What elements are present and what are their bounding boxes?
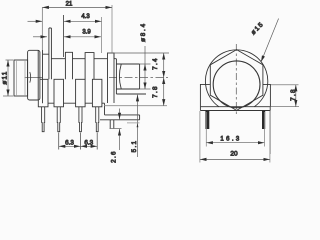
svg-text:ø11: ø11 bbox=[1, 71, 8, 85]
right tab front bbox=[263, 84, 271, 106]
pin 1 bbox=[42, 107, 45, 132]
dim 6.3 first bbox=[59, 145, 81, 147]
washer circle bbox=[213, 61, 260, 108]
dim 20 bbox=[200, 158, 270, 160]
dim 21 bbox=[42, 6, 112, 8]
cylinder end arc bbox=[119, 64, 121, 88]
svg-text:ø8.4: ø8.4 bbox=[140, 22, 147, 42]
threaded bushing (side view) bbox=[14, 60, 28, 96]
dim 7.4 bbox=[163, 53, 165, 78]
contact column 2 tab bbox=[65, 52, 72, 79]
centerline side view bbox=[25, 76, 43, 78]
pin 3 bbox=[79, 107, 82, 132]
dim 6.3 second bbox=[80, 145, 97, 147]
pin 2 bbox=[57, 107, 60, 132]
svg-text:5.1: 5.1 bbox=[131, 140, 138, 153]
dim 5.1 bbox=[137, 95, 139, 157]
lug block 2 bbox=[54, 79, 64, 107]
hex nut (side view) bbox=[28, 50, 40, 100]
dim 16.3 ext lines bbox=[205, 112, 207, 147]
svg-text:16.3: 16.3 bbox=[220, 136, 241, 142]
svg-text:7.8: 7.8 bbox=[152, 85, 159, 98]
svg-text:6.3: 6.3 bbox=[65, 139, 74, 146]
dim 4.3 bbox=[28, 20, 43, 22]
dim 7.8 front bbox=[295, 85, 297, 107]
dim 7.8 side bbox=[163, 78, 165, 106]
svg-text:20: 20 bbox=[230, 151, 238, 158]
body circle front bbox=[205, 50, 267, 107]
contact column 4 tab bbox=[108, 53, 115, 103]
sleeve pin bbox=[110, 120, 114, 129]
line D bbox=[110, 128, 122, 130]
sleeve strip bbox=[100, 103, 140, 120]
dim 7.8 front ext lines bbox=[270, 84, 298, 86]
body outline bbox=[43, 50, 108, 103]
svg-text:2.6: 2.6 bbox=[110, 150, 117, 163]
dim 2.6 bbox=[119, 109, 121, 120]
svg-text:3.9: 3.9 bbox=[82, 30, 91, 36]
dim 7.4 ext line bbox=[108, 52, 170, 54]
lug block 3 bbox=[76, 79, 86, 107]
front view centerline bbox=[235, 44, 237, 116]
dim 20 ext lines bbox=[199, 111, 201, 163]
front pin mid bbox=[262, 111, 265, 130]
svg-text:21: 21 bbox=[66, 2, 73, 8]
dim dia8.4 bbox=[144, 46, 146, 64]
lug block 1 bbox=[38, 79, 48, 107]
dim 7.8 side ext line bbox=[104, 105, 167, 107]
svg-text:6.3: 6.3 bbox=[84, 139, 93, 146]
dim 16.3 bbox=[206, 142, 264, 144]
contact column 3 tab bbox=[85, 53, 94, 80]
svg-text:7.4: 7.4 bbox=[152, 57, 159, 70]
dim dia11 bbox=[6, 59, 14, 61]
pin 4 bbox=[96, 107, 99, 132]
rear cylinder bbox=[116, 64, 139, 89]
base plate front bbox=[200, 107, 270, 111]
lug block 4 bbox=[92, 79, 102, 107]
svg-text:7.8: 7.8 bbox=[290, 88, 297, 101]
dia15 leader bbox=[261, 19, 279, 63]
contact column 1: tall tab bbox=[49, 28, 52, 79]
svg-text:4.3: 4.3 bbox=[81, 14, 90, 20]
dim dia8.4 ext lines bbox=[140, 63, 151, 65]
thread lines bbox=[16, 60, 18, 96]
body rear edge bbox=[114, 53, 146, 94]
hex nut front bbox=[210, 50, 263, 111]
dim 4.3 ext lines bbox=[63, 15, 65, 57]
dim 21 extension lines bbox=[41, 7, 43, 50]
dim 3.9 bbox=[33, 36, 47, 38]
dim 6.3 ext lines bbox=[58, 133, 60, 150]
front pin left bbox=[205, 111, 209, 130]
left tab front bbox=[200, 84, 210, 106]
